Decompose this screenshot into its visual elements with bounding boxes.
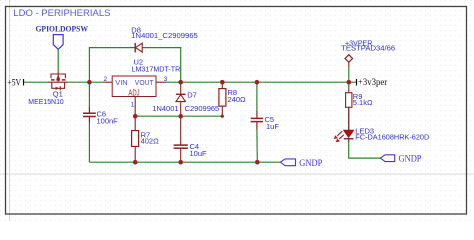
resistor R8 bbox=[219, 89, 226, 107]
wire rail to R9 bbox=[348, 82, 350, 88]
wire Q1 drain to U2 VIN bbox=[68, 81, 104, 83]
C5 bottom pin stub bbox=[256, 122, 258, 129]
R8 bottom pin dot bbox=[221, 115, 224, 118]
wire +5V to Q1 source bbox=[24, 81, 48, 83]
svg-text:GNDP: GNDP bbox=[399, 154, 422, 164]
U2 pin 3 stub bbox=[156, 81, 166, 83]
net label +5V bbox=[7, 78, 23, 88]
wire ground rail bbox=[89, 161, 280, 163]
svg-text:1uF: 1uF bbox=[266, 122, 279, 131]
svg-text:VIN: VIN bbox=[115, 78, 128, 87]
svg-text:C2909965: C2909965 bbox=[185, 104, 220, 113]
wire C5 to ground rail bbox=[256, 130, 258, 163]
C5 top pin stub bbox=[256, 111, 258, 118]
junction node C4 bottom bbox=[178, 160, 183, 165]
svg-text:240Ω: 240Ω bbox=[228, 95, 247, 104]
D7 anode stub bbox=[180, 102, 182, 117]
wire port to Q1 gate bbox=[57, 49, 59, 72]
svg-text:VOUT: VOUT bbox=[135, 78, 154, 87]
port GPIOLDOPSW bbox=[36, 24, 89, 50]
svg-text:GPIOLDOPSW: GPIOLDOPSW bbox=[36, 24, 89, 34]
wire VOUT rail to C5 bbox=[256, 82, 258, 110]
junction node R7 bottom bbox=[133, 160, 138, 165]
C6 bottom pin stub bbox=[88, 117, 90, 123]
D7 cathode stub bbox=[180, 82, 182, 94]
junction node C5 bottom bbox=[255, 160, 260, 165]
LED LED3 bbox=[334, 130, 354, 142]
svg-text:1: 1 bbox=[131, 102, 135, 109]
U2 pin 2 stub bbox=[104, 81, 113, 83]
C6 top pin stub bbox=[88, 107, 90, 113]
testpad diamond symbol bbox=[345, 55, 353, 63]
svg-text:LDO - PERIPHERIALS: LDO - PERIPHERIALS bbox=[13, 8, 110, 19]
svg-text:1N4001: 1N4001 bbox=[152, 104, 178, 113]
junction node VOUT at D7 bbox=[178, 80, 183, 85]
svg-text:D7: D7 bbox=[187, 90, 197, 99]
wire VIN node to D8 cathode bbox=[89, 48, 135, 83]
svg-text:402Ω: 402Ω bbox=[141, 137, 160, 146]
diode D8 bbox=[135, 43, 142, 53]
svg-text:+3v3per: +3v3per bbox=[358, 78, 388, 88]
wire VIN node to C6 bbox=[88, 82, 90, 107]
svg-text:10uF: 10uF bbox=[190, 149, 208, 158]
junction node D7-C4 bbox=[178, 114, 183, 119]
svg-text:5.1kΩ: 5.1kΩ bbox=[353, 98, 373, 107]
wire VOUT rail bbox=[166, 81, 357, 83]
capacitor C6 bbox=[83, 113, 96, 116]
wire ADJ feedback bbox=[135, 115, 222, 117]
svg-text:TESTPAD34/66: TESTPAD34/66 bbox=[341, 44, 395, 53]
ground port GNDP mid bbox=[280, 158, 322, 168]
R8 top pin stub bbox=[221, 82, 223, 88]
wire D8 anode to VOUT node bbox=[142, 48, 181, 83]
net label +3v3per bbox=[357, 78, 388, 88]
junction node ADJ bbox=[133, 114, 138, 119]
svg-text:+5V: +5V bbox=[7, 78, 21, 88]
regulator U2 body bbox=[112, 76, 156, 97]
R7 bottom pin stub bbox=[134, 146, 136, 162]
diode D7 bbox=[176, 94, 186, 101]
R7 top pin stub bbox=[134, 116, 136, 130]
resistor R9 bbox=[346, 93, 352, 108]
junction node VIN bbox=[87, 80, 92, 85]
svg-text:2: 2 bbox=[104, 76, 108, 83]
testpad pin stub bbox=[348, 62, 350, 67]
junction node testpad bbox=[347, 80, 352, 85]
C4 top pin stub bbox=[180, 116, 182, 144]
capacitor C5 bbox=[251, 118, 263, 121]
svg-text:LM317MDT-TR: LM317MDT-TR bbox=[132, 64, 181, 73]
R9 top pin stub bbox=[348, 89, 350, 93]
D7 value label 1N4001_C2909965 bbox=[152, 104, 219, 113]
transistor Q1 bbox=[48, 72, 68, 90]
wire R9 to LED3 anode bbox=[348, 107, 350, 130]
junction node C5 top bbox=[255, 80, 260, 85]
wire C6 to ground rail bbox=[88, 123, 90, 163]
wire testpad to rail bbox=[348, 67, 350, 82]
junction node R8 top bbox=[220, 80, 225, 85]
R8 bottom pin stub bbox=[221, 106, 223, 116]
U2 pin 1 ADJ stub bbox=[134, 97, 136, 117]
svg-text:1N4001_C2909965: 1N4001_C2909965 bbox=[131, 31, 198, 40]
capacitor C4 bbox=[174, 145, 188, 148]
wire LED3 cathode to GNDP bbox=[349, 141, 381, 158]
C4 bottom pin stub bbox=[180, 149, 182, 162]
svg-text:ADJ: ADJ bbox=[128, 89, 139, 98]
svg-text:GNDP: GNDP bbox=[299, 158, 322, 168]
svg-text:100nF: 100nF bbox=[97, 117, 119, 126]
resistor R7 bbox=[132, 131, 139, 147]
svg-text:FC-DA1608HRK-620D: FC-DA1608HRK-620D bbox=[355, 132, 430, 141]
ground port GNDP right bbox=[380, 154, 421, 164]
svg-text:MEE15N10: MEE15N10 bbox=[28, 97, 64, 106]
